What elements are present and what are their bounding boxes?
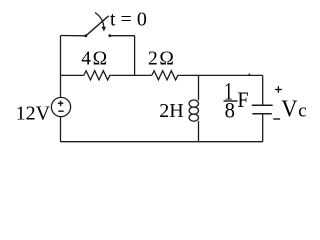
wire: left vertical (source branch): [60, 36, 62, 142]
inductor L1 2H: [189, 75, 198, 141]
capacitor C1 plates: [252, 105, 273, 114]
wire: main horizontal right of 2-ohm resistor: [179, 74, 263, 76]
svg-text:8: 8: [225, 98, 235, 123]
label t = 0: [110, 8, 147, 30]
wire: switch-loop right vertical: [134, 36, 136, 76]
label 12V: [16, 103, 51, 125]
label 2 ohm: [148, 48, 174, 69]
label Vc: [281, 96, 306, 123]
switch S1 (opens at t=0): [84, 13, 111, 38]
wire: top wire left segment: [61, 35, 86, 37]
svg-text:F: F: [237, 87, 248, 112]
svg-text:12V: 12V: [16, 103, 51, 125]
capacitor C1 lead bottom: [262, 115, 264, 142]
svg-text:2 Ω: 2 Ω: [148, 48, 174, 69]
capacitor C1 lead top: [262, 75, 264, 104]
wire: bottom return wire: [61, 141, 263, 143]
junction dot on top wire: [249, 74, 251, 76]
label plus (capacitor polarity): [275, 86, 282, 93]
svg-text:2H: 2H: [159, 100, 183, 122]
wire: main horizontal left of 4-ohm resistor: [61, 74, 84, 76]
resistor R2 2 ohm: [152, 71, 179, 80]
label minus (capacitor polarity): [273, 118, 280, 120]
resistor R1 4 ohm: [84, 71, 111, 80]
svg-text:c: c: [298, 101, 306, 122]
svg-text:t = 0: t = 0: [110, 8, 147, 30]
label 1/8 F: [224, 77, 249, 122]
label 2H: [159, 100, 183, 122]
svg-text:V: V: [281, 96, 297, 123]
wire: top wire right segment: [111, 35, 135, 37]
svg-text:4 Ω: 4 Ω: [81, 48, 107, 69]
label 4 ohm: [81, 48, 107, 69]
voltage source V1 12V: [51, 97, 70, 116]
wire: main horizontal between resistors: [111, 74, 152, 76]
